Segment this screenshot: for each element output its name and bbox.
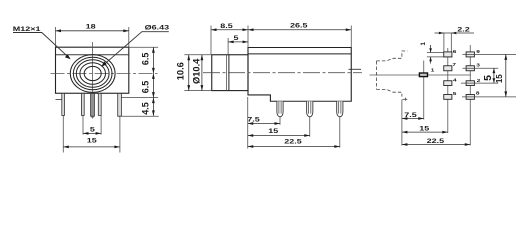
side body inner line [248,53,351,55]
dim 15 right line [505,54,507,97]
svg-text:2.2: 2.2 [457,26,470,33]
pin 3 tip [91,116,95,119]
pin 2 front [81,93,84,115]
leader M12x1 arrow [65,54,71,59]
svg-text:2: 2 [477,78,481,83]
side pin3 ext [339,117,341,148]
thread outer ellipse [70,55,115,93]
svg-text:15: 15 [419,125,430,132]
svg-text:3: 3 [476,63,480,68]
svg-text:15: 15 [268,127,279,134]
dim 22.5 layout line [402,144,470,146]
svg-text:Ø6.43: Ø6.43 [145,24,170,31]
ext row4 right [462,96,516,98]
side pin1 ext [279,117,281,125]
dim 10.6 ext top [184,54,211,56]
dim 5 right line [493,68,495,83]
pin 2 pad [466,81,474,86]
svg-text:15: 15 [495,74,504,83]
pin1 axis vertical [423,61,425,120]
dim 18 arrows [56,29,62,32]
pin6 bottom edge ext [427,56,453,58]
dim 5 ext left [82,115,84,134]
dim 1 upper arrow [430,45,432,53]
dim 2.2 line [435,32,475,34]
svg-text:22.5: 22.5 [427,137,445,144]
svg-text:4.5: 4.5 [141,102,151,115]
pin 5 pad [444,95,452,100]
pin 6 pad [444,52,452,57]
side center line [203,72,362,74]
svg-text:M12×1: M12×1 [13,25,41,32]
pin 8 pad [466,95,474,100]
dim 2.2 arrows outside [439,32,444,35]
dashed outline top [376,51,407,61]
dim 5 side ext left [227,38,229,55]
svg-text:5: 5 [234,34,240,41]
svg-text:22.5: 22.5 [284,138,302,145]
dim 18 extension right [128,27,130,47]
right chain ext top (body top extended) [129,46,158,48]
barrel outline [212,55,248,91]
side pin 2 [307,101,313,117]
dim 15 ext right [119,116,121,152]
side pin2 ext [309,117,311,137]
leader M12x1 underline and diagonal [13,33,70,59]
dashed outline left edge [375,61,377,89]
dim 2.2 ext b [450,33,452,52]
ext row2 right [463,67,499,69]
dim 5 line [83,132,101,134]
left pin column axis [447,48,449,133]
body front outline [56,47,129,93]
leader phi6.43 underline and diagonal [103,32,169,66]
svg-text:6.5: 6.5 [141,81,151,94]
side pin 1 [277,101,283,117]
svg-text:6: 6 [453,49,457,54]
dim 15 side line [248,135,310,137]
svg-text:4: 4 [453,78,458,83]
thread root ellipse [73,57,112,90]
dim 4.5 line [152,98,154,116]
svg-text:15: 15 [87,137,98,144]
svg-text:8: 8 [476,91,480,96]
dim 8.5 ext right (body face extended) [247,26,249,48]
svg-text:6.5: 6.5 [141,53,151,66]
dim 15 line [63,146,120,148]
vertical center line [92,42,94,93]
dim 7.5 layout line [402,118,424,120]
ext row3 right [461,82,498,84]
hole ellipse phi6.43 [80,63,106,85]
svg-text:7.5: 7.5 [247,116,260,123]
svg-text:9: 9 [476,49,480,54]
dim 1 lower arrow [430,57,432,64]
ext row1 right [463,53,517,55]
svg-text:5: 5 [453,92,457,97]
dim 15 ext left [62,115,64,152]
layout center line [370,74,472,76]
dim 8.5 ext left [210,26,212,55]
dim 10.6 line [188,55,190,91]
svg-text:10.6: 10.6 [176,62,186,80]
svg-text:7: 7 [452,63,456,68]
dim 18 line [56,30,129,32]
horizontal center line [51,72,158,74]
dim 5 side line [228,41,248,43]
svg-text:8.5: 8.5 [220,22,233,29]
pin 4 front [98,93,101,115]
svg-text:Ø10.4: Ø10.4 [192,58,202,84]
bushing ellipse [76,60,109,88]
dim 26.5 line [248,29,351,31]
dim 5 ext right [100,115,102,134]
dim 10.6 ext bottom [184,90,211,92]
svg-text:26.5: 26.5 [290,22,308,29]
pin 1 front [62,93,65,115]
dim 6.5 upper line [152,47,154,73]
pin 7 pad [444,66,452,71]
dim 8.5 line [211,29,248,31]
pin 3 center front [91,93,95,116]
dashed outline bottom [376,89,402,96]
right chain ext step [121,97,158,99]
dim 22.5 side line [248,146,340,148]
pin 3 pad [466,66,474,71]
leader phi6.43 arrow [101,61,106,67]
right chain ext bottom [118,115,159,117]
dim 15 layout line [402,131,448,133]
svg-text:1: 1 [420,42,427,46]
dim 26.5 ext right [350,26,352,48]
svg-text:5: 5 [90,126,96,133]
svg-text:18: 18 [86,23,97,30]
dim 18 extension left [55,27,57,47]
svg-text:1: 1 [431,68,435,73]
side body outline with bottom step [248,48,351,102]
inner horizontal flange line [56,54,129,56]
pin 5 tab front [118,93,122,116]
pin6 top edge ext [427,52,452,54]
dim 2.2 ext a [443,33,445,52]
pin 9 pad [466,52,474,57]
pin 1 pad [419,73,427,77]
dim phi10.4 line [201,55,203,91]
dim 7.5 side line [248,123,280,125]
dashed outline bottom cross tick [402,98,407,100]
pin 4 pad [444,81,452,86]
svg-text:5: 5 [482,75,494,81]
jack bore ellipse [84,66,101,80]
svg-text:7.5: 7.5 [404,111,417,118]
barrel washer line b [228,55,230,91]
left stub tick [349,68,362,70]
small tick left of pin1 [56,99,62,101]
barrel washer line a [225,55,227,91]
layout bottom ext left [401,100,403,146]
right pin column axis [469,45,471,146]
side pin 3 [337,101,343,117]
side bottom ext left [247,97,249,149]
dim 6.5 lower line [152,73,154,97]
